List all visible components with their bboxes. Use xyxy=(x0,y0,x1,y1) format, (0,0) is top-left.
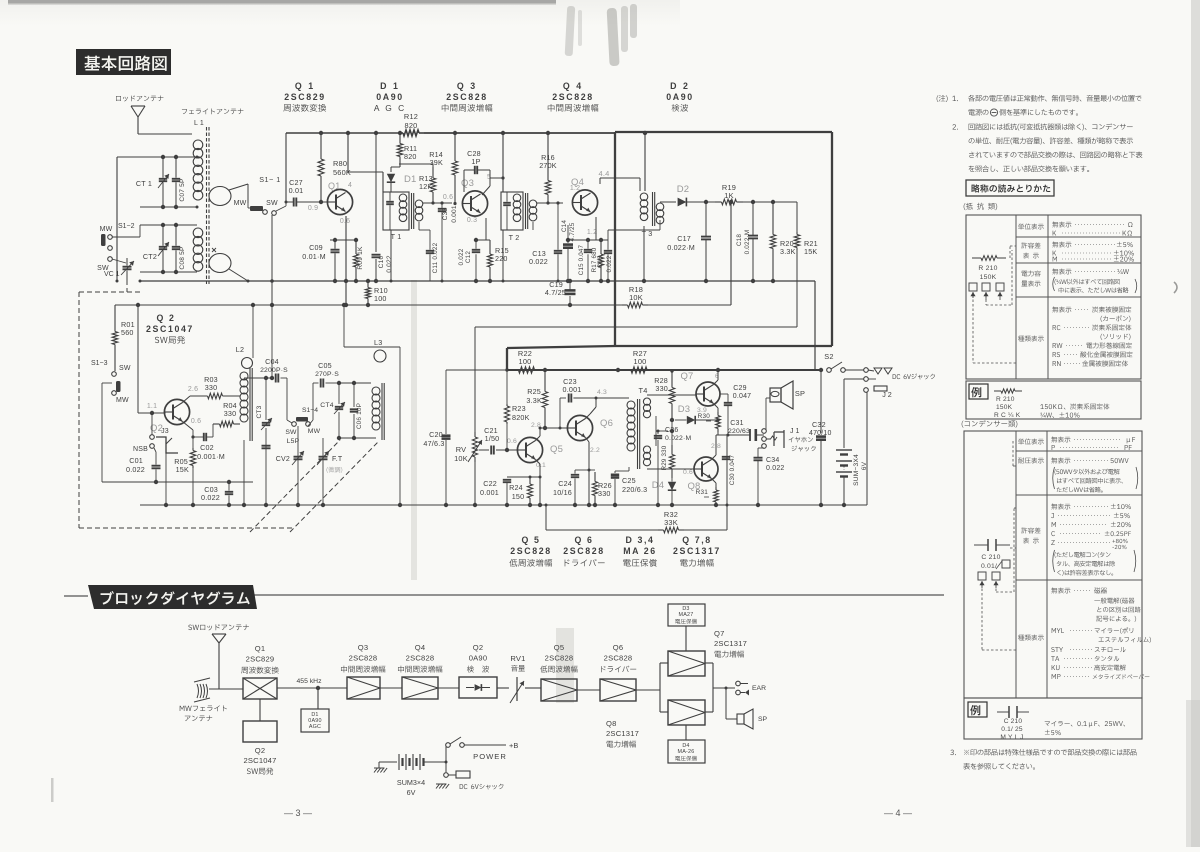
svg-text:0.022·M: 0.022·M xyxy=(667,243,695,252)
svg-text:0.1/ 25: 0.1/ 25 xyxy=(1001,726,1023,733)
svg-text:0A90: 0A90 xyxy=(376,92,403,102)
svg-text:— 3 —: — 3 — xyxy=(284,808,312,818)
svg-text:C20: C20 xyxy=(429,430,443,439)
svg-text:C12: C12 xyxy=(465,251,472,264)
svg-text:C32: C32 xyxy=(812,420,826,429)
svg-text:220/63: 220/63 xyxy=(728,428,750,435)
svg-text:R12: R12 xyxy=(404,112,418,121)
svg-text:MW: MW xyxy=(308,428,321,435)
svg-text:MA27: MA27 xyxy=(679,612,694,618)
svg-text:C31: C31 xyxy=(730,420,743,427)
svg-text:4.7/25: 4.7/25 xyxy=(569,222,576,241)
svg-text:C09: C09 xyxy=(309,243,323,252)
svg-text:Q 4: Q 4 xyxy=(563,81,583,91)
svg-text:150K: 150K xyxy=(996,404,1013,411)
svg-text:C18: C18 xyxy=(736,234,743,247)
svg-text:2SC828: 2SC828 xyxy=(604,654,633,663)
svg-text:0.022: 0.022 xyxy=(458,248,465,265)
svg-text:0.022: 0.022 xyxy=(606,255,613,272)
svg-text:6V: 6V xyxy=(861,461,868,470)
svg-text:Q 3: Q 3 xyxy=(457,81,477,91)
svg-text:S2: S2 xyxy=(824,352,833,361)
svg-text:SUM3×4: SUM3×4 xyxy=(397,778,425,787)
svg-text:L2: L2 xyxy=(236,345,244,354)
svg-text:33K: 33K xyxy=(664,518,678,527)
svg-text:A G C: A G C xyxy=(374,103,406,113)
svg-text:R31: R31 xyxy=(696,489,709,496)
svg-text:15K: 15K xyxy=(176,465,189,474)
svg-text:0.6: 0.6 xyxy=(191,418,201,425)
svg-text:0.022·M: 0.022·M xyxy=(744,230,751,255)
svg-text:R C ¼ K: R C ¼ K xyxy=(994,412,1021,419)
svg-text:47/6.3: 47/6.3 xyxy=(423,439,444,448)
svg-text:12K: 12K xyxy=(419,182,432,191)
svg-text:CT 1: CT 1 xyxy=(136,179,152,188)
svg-text:SW: SW xyxy=(285,429,297,436)
svg-text:1/50: 1/50 xyxy=(485,434,500,443)
svg-text:D 1: D 1 xyxy=(380,81,400,91)
svg-text:S1−4: S1−4 xyxy=(302,407,318,414)
svg-text:C08 5P: C08 5P xyxy=(179,246,186,270)
svg-text:AGC: AGC xyxy=(309,724,321,730)
svg-text:C29: C29 xyxy=(733,385,746,392)
svg-text:Q3: Q3 xyxy=(461,178,474,189)
svg-text:C34: C34 xyxy=(766,457,779,464)
svg-text:R 210: R 210 xyxy=(996,396,1015,403)
svg-text:CV2: CV2 xyxy=(276,456,290,463)
svg-text:2SC828: 2SC828 xyxy=(349,654,378,663)
svg-text:0.3: 0.3 xyxy=(467,217,477,224)
svg-text:T4: T4 xyxy=(638,386,647,395)
svg-text:2.6: 2.6 xyxy=(188,386,198,393)
svg-text:2SC1317: 2SC1317 xyxy=(673,546,721,556)
svg-text:220: 220 xyxy=(495,254,508,263)
svg-text:Q 1: Q 1 xyxy=(295,81,315,91)
svg-text:D1: D1 xyxy=(404,174,417,185)
svg-text:330: 330 xyxy=(598,489,611,498)
svg-text:C26: C26 xyxy=(665,427,678,434)
svg-text:2.2: 2.2 xyxy=(590,447,600,454)
svg-text:2SC1047: 2SC1047 xyxy=(146,324,194,334)
svg-text:15K: 15K xyxy=(804,247,817,256)
svg-text:2SC828: 2SC828 xyxy=(563,546,604,556)
svg-text:R25: R25 xyxy=(527,387,541,396)
svg-text:0.1: 0.1 xyxy=(536,462,546,469)
svg-text:455 kHz: 455 kHz xyxy=(297,678,323,685)
svg-text:2SC1317: 2SC1317 xyxy=(606,729,639,738)
svg-text:C33: C33 xyxy=(442,208,449,221)
svg-text:Q2: Q2 xyxy=(255,746,266,755)
svg-text:0.6: 0.6 xyxy=(683,469,693,476)
svg-text:MW: MW xyxy=(116,397,129,404)
svg-text:C14: C14 xyxy=(561,220,568,233)
svg-text:Q1: Q1 xyxy=(255,644,266,653)
svg-text:EAR: EAR xyxy=(752,685,766,692)
svg-text:Q 2: Q 2 xyxy=(157,313,176,323)
svg-text:NSB: NSB xyxy=(133,446,148,453)
svg-text:C 210: C 210 xyxy=(981,554,1000,561)
svg-text:0A90: 0A90 xyxy=(666,92,693,102)
svg-text:Q6: Q6 xyxy=(613,643,624,652)
svg-text:0.01·M: 0.01·M xyxy=(302,252,326,261)
svg-text:0.001: 0.001 xyxy=(451,205,458,223)
svg-text:4.3: 4.3 xyxy=(597,389,607,396)
svg-text:J3: J3 xyxy=(161,428,169,435)
svg-text:820K: 820K xyxy=(512,413,530,422)
svg-text:SW: SW xyxy=(266,200,278,207)
svg-text:150K: 150K xyxy=(980,274,997,281)
svg-text:0.022: 0.022 xyxy=(126,465,145,474)
svg-text:39K: 39K xyxy=(430,158,443,167)
svg-text:F.T: F.T xyxy=(332,456,343,463)
svg-text:0.001: 0.001 xyxy=(563,385,582,394)
svg-text:S1−2: S1−2 xyxy=(118,223,135,230)
svg-text:0.6: 0.6 xyxy=(443,194,453,201)
svg-text:CT3: CT3 xyxy=(256,405,263,418)
svg-text:POWER: POWER xyxy=(473,752,507,761)
svg-text:560: 560 xyxy=(121,328,134,337)
svg-text:VC 1: VC 1 xyxy=(104,271,120,278)
svg-text:2SC1047: 2SC1047 xyxy=(243,756,276,765)
svg-text:270K: 270K xyxy=(539,161,557,170)
svg-text:S1− 1: S1− 1 xyxy=(259,175,280,184)
svg-text:L 1: L 1 xyxy=(194,120,204,127)
svg-text:R23: R23 xyxy=(512,404,526,413)
svg-text:C05: C05 xyxy=(318,361,332,370)
svg-text:R09 1K: R09 1K xyxy=(357,246,364,270)
svg-text:0.001: 0.001 xyxy=(480,488,499,497)
svg-text:330: 330 xyxy=(655,384,668,393)
svg-text:D 3,4: D 3,4 xyxy=(625,535,654,545)
svg-text:330: 330 xyxy=(205,383,218,392)
svg-text:C17: C17 xyxy=(677,234,691,243)
svg-text:J 2: J 2 xyxy=(882,390,892,399)
svg-text:Q 5: Q 5 xyxy=(522,535,541,545)
svg-text:10K: 10K xyxy=(454,454,468,463)
svg-text:3.3K: 3.3K xyxy=(526,396,542,405)
svg-text:10K: 10K xyxy=(629,293,643,302)
svg-text:0.01: 0.01 xyxy=(289,186,304,195)
svg-text:Q2: Q2 xyxy=(473,643,484,652)
svg-text:D3: D3 xyxy=(678,404,691,415)
svg-text:RV: RV xyxy=(456,445,467,454)
svg-text:0.022: 0.022 xyxy=(766,465,785,472)
svg-text:CT2: CT2 xyxy=(143,252,157,261)
svg-text:Q4: Q4 xyxy=(415,643,426,652)
svg-text:SUM−3X4: SUM−3X4 xyxy=(853,454,860,486)
svg-text:L3: L3 xyxy=(374,338,382,347)
svg-text:Q 6: Q 6 xyxy=(575,535,594,545)
svg-text:0.022: 0.022 xyxy=(529,257,548,266)
svg-text:Q7: Q7 xyxy=(714,629,725,638)
svg-text:470/10: 470/10 xyxy=(809,430,832,437)
svg-text:C22: C22 xyxy=(483,479,497,488)
svg-text:1.1: 1.1 xyxy=(147,403,157,410)
svg-text:0.001·M: 0.001·M xyxy=(197,452,225,461)
svg-text:2.8: 2.8 xyxy=(531,422,541,429)
svg-text:4.4: 4.4 xyxy=(598,169,609,178)
svg-text:2200P·S: 2200P·S xyxy=(260,367,288,374)
svg-text:2SC829: 2SC829 xyxy=(246,655,275,664)
svg-text:C24: C24 xyxy=(558,479,572,488)
svg-text:CT4: CT4 xyxy=(320,402,333,409)
svg-text:3.3K: 3.3K xyxy=(780,247,796,256)
svg-text:2SC829: 2SC829 xyxy=(284,92,325,102)
svg-text:C02: C02 xyxy=(200,443,214,452)
svg-text:1.2: 1.2 xyxy=(570,185,580,192)
svg-text:SP: SP xyxy=(795,389,805,398)
svg-text:SW: SW xyxy=(119,365,131,372)
svg-text:10/16: 10/16 xyxy=(553,488,572,497)
svg-text:0.6: 0.6 xyxy=(507,438,517,445)
svg-text:R29 330: R29 330 xyxy=(661,445,668,470)
svg-text:T 1: T 1 xyxy=(391,232,402,241)
svg-text:M Y L J: M Y L J xyxy=(1000,734,1023,741)
svg-text:0.01/: 0.01/ xyxy=(981,563,997,570)
svg-text:SP: SP xyxy=(758,716,768,723)
svg-text:0.022·M: 0.022·M xyxy=(665,435,691,442)
svg-text:Q5: Q5 xyxy=(554,643,565,652)
svg-text:0.022: 0.022 xyxy=(386,255,393,273)
svg-text:D 2: D 2 xyxy=(670,81,690,91)
svg-text:T 2: T 2 xyxy=(509,233,520,242)
svg-text:100: 100 xyxy=(374,294,387,303)
svg-text:Q6: Q6 xyxy=(600,418,613,429)
svg-text:330: 330 xyxy=(224,409,237,418)
svg-text:C01: C01 xyxy=(129,456,143,465)
svg-text:0.047: 0.047 xyxy=(733,393,752,400)
svg-text:4: 4 xyxy=(348,182,352,189)
svg-text:MA 26: MA 26 xyxy=(623,546,657,556)
svg-text:100: 100 xyxy=(634,357,647,366)
svg-text:C 210: C 210 xyxy=(1004,718,1023,725)
svg-text:MA-26: MA-26 xyxy=(678,749,695,755)
svg-text:0.6: 0.6 xyxy=(340,218,350,225)
svg-text:Q8: Q8 xyxy=(606,719,617,728)
svg-text:2SC828: 2SC828 xyxy=(446,92,487,102)
svg-text:1P: 1P xyxy=(471,157,480,166)
svg-text:1K: 1K xyxy=(724,191,733,200)
svg-text:J 1: J 1 xyxy=(790,428,799,435)
svg-text:Q7: Q7 xyxy=(680,371,693,382)
svg-text:150: 150 xyxy=(512,492,525,501)
svg-text:R24: R24 xyxy=(509,483,523,492)
svg-text:MW: MW xyxy=(100,226,113,233)
svg-text:R 210: R 210 xyxy=(978,265,997,272)
svg-text:C11 0.022: C11 0.022 xyxy=(432,242,439,273)
svg-text:2SC828: 2SC828 xyxy=(545,654,574,663)
svg-text:820: 820 xyxy=(405,121,418,130)
svg-text:0A90: 0A90 xyxy=(469,654,488,663)
svg-text:820: 820 xyxy=(404,152,417,161)
svg-text:S1−3: S1−3 xyxy=(91,360,108,367)
svg-text:0.9: 0.9 xyxy=(308,205,318,212)
svg-text:Q5: Q5 xyxy=(550,444,563,455)
svg-text:R30: R30 xyxy=(698,413,711,420)
svg-text:C25: C25 xyxy=(622,476,636,485)
svg-text:2SC828: 2SC828 xyxy=(552,92,593,102)
svg-text:+B: +B xyxy=(509,741,518,750)
svg-text:100: 100 xyxy=(519,357,532,366)
svg-text:Q3: Q3 xyxy=(358,643,369,652)
svg-text:C10: C10 xyxy=(378,256,385,269)
svg-text:— 4 —: — 4 — xyxy=(884,808,912,818)
svg-text:6V: 6V xyxy=(407,788,416,797)
svg-text:RV1: RV1 xyxy=(510,654,525,663)
svg-text:Q1: Q1 xyxy=(328,181,340,191)
svg-text:C06 10P: C06 10P xyxy=(356,403,363,429)
svg-text:2SC828: 2SC828 xyxy=(510,546,551,556)
svg-text:2SC1317: 2SC1317 xyxy=(714,639,747,648)
svg-text:Q 7,8: Q 7,8 xyxy=(682,535,712,545)
svg-text:270P·S: 270P·S xyxy=(315,371,339,378)
svg-text:0.022: 0.022 xyxy=(201,493,220,502)
svg-text:2SC828: 2SC828 xyxy=(406,654,435,663)
svg-text:C16: C16 xyxy=(597,256,604,269)
svg-text:C07 5P: C07 5P xyxy=(179,178,186,202)
svg-text:MW: MW xyxy=(234,200,247,207)
svg-text:220/6.3: 220/6.3 xyxy=(622,485,647,494)
svg-text:D2: D2 xyxy=(677,184,690,195)
svg-text:R80: R80 xyxy=(333,159,347,168)
svg-text:C15 0.047: C15 0.047 xyxy=(578,244,585,275)
svg-text:4.7/25: 4.7/25 xyxy=(545,288,566,297)
